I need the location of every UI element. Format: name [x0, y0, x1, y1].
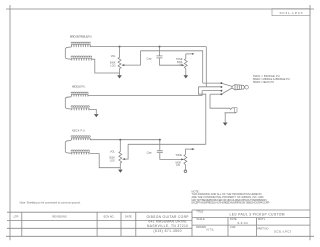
svg-text:TITLE: TITLE: [196, 210, 203, 214]
ground VOL1: [117, 75, 122, 78]
svg-text:SW#3 = NECK PU: SW#3 = NECK PU: [253, 80, 275, 84]
wire P2 series link (left): [65, 97, 71, 109]
svg-text:NECK P.U.: NECK P.U.: [72, 128, 86, 132]
ground P2: [94, 114, 99, 117]
node P1 volume tap: [119, 46, 121, 48]
svg-text:LIN: LIN: [176, 164, 180, 167]
output jack J1: [225, 108, 238, 123]
title block right section: [192, 210, 310, 237]
svg-text:641 MASSMAN DRIVE: 641 MASSMAN DRIVE: [149, 220, 188, 224]
svg-text:SCALE: SCALE: [196, 217, 205, 221]
wiper VOL1: [121, 51, 140, 66]
svg-text:REVISIONS: REVISIONS: [52, 214, 66, 218]
svg-text:LTR: LTR: [14, 214, 19, 218]
node C1 tap on hot bus: [159, 46, 161, 48]
label VOL1: [110, 55, 116, 67]
wire P3 hot bus to right: [90, 139, 161, 141]
wiper VOL3: [122, 144, 128, 160]
potentiometer TONE3 500K LIN: [184, 149, 187, 170]
pickup P1 coil 1: [71, 42, 90, 47]
svg-text:ECN NO.: ECN NO.: [104, 214, 115, 218]
svg-text:PART NO: PART NO: [257, 226, 268, 230]
svg-text:VOL: VOL: [110, 151, 115, 154]
ground J1: [223, 123, 228, 126]
wire P3 output (second wire) to bus riser: [128, 143, 206, 145]
wire P1 hot bus to right: [90, 46, 206, 48]
svg-text:LES PAUL 3 PICKUP CUSTOM: LES PAUL 3 PICKUP CUSTOM: [230, 213, 285, 217]
switch SW1 contact 2: [198, 86, 222, 88]
note switch positions: [253, 74, 290, 84]
svg-text:9-9-94: 9-9-94: [238, 221, 248, 225]
svg-text:MIDDLE P.U.: MIDDLE P.U.: [72, 85, 86, 89]
wire P1 output (second wire) to switch contact 1: [141, 51, 203, 83]
svg-text:(615) 871-4500: (615) 871-4500: [154, 229, 182, 233]
pickup P3 coil 2: [71, 150, 90, 154]
svg-text:N.T.S.: N.T.S.: [207, 228, 215, 232]
wire P1 hot bus drop to switch contact 2: [205, 47, 207, 87]
title block revision table: [7, 212, 192, 236]
ground VOL3: [118, 170, 123, 173]
label TONE1: [176, 58, 183, 66]
ground TONE1: [184, 75, 189, 78]
wire switch common to jack: [210, 94, 230, 108]
switch SW1 contact 3: [202, 90, 222, 92]
wire P3 bus riser to switch contact 2 jog: [198, 87, 205, 145]
svg-text:TONE: TONE: [175, 154, 182, 157]
potentiometer TONE1 500K LIN: [184, 54, 187, 75]
svg-text:BRIDGE(TREBLE) P.U.: BRIDGE(TREBLE) P.U.: [70, 35, 92, 39]
svg-text:NASHVILLE, TN 37210: NASHVILLE, TN 37210: [147, 224, 188, 228]
capacitor C1: [157, 47, 182, 66]
pickup P2 coil 2: [71, 106, 89, 110]
note confidential: [192, 189, 270, 204]
svg-text:SC3L-LPC3: SC3L-LPC3: [274, 230, 291, 234]
wiper TONE1 arrow: [182, 64, 185, 66]
pickup P1 coil 2: [71, 56, 92, 61]
capacitor C3: [157, 140, 182, 160]
svg-text:VOL: VOL: [111, 55, 116, 58]
wire TONE3 top terminal: [185, 148, 194, 150]
svg-text:SC3L-LPC3: SC3L-LPC3: [280, 11, 303, 15]
wire TONE1 top terminal: [186, 53, 195, 55]
svg-text:EXCEPT AS EXPRESSLY AUTHORIZED: EXCEPT AS EXPRESSLY AUTHORIZED IN WRITIN…: [192, 201, 270, 205]
wiper TONE3 arrow: [181, 158, 184, 160]
potentiometer VOL1 500K LOG: [118, 47, 121, 76]
potentiometer VOL3 500K LOG: [119, 140, 122, 170]
svg-text:Cap: Cap: [147, 151, 152, 155]
switch SW1 lever: [222, 84, 248, 94]
wire P3 cold to volume bottom: [90, 154, 120, 168]
drawing number box (top right): [272, 9, 310, 16]
svg-text:Cap: Cap: [146, 56, 151, 60]
wire P1 cold to volume bottom: [92, 59, 120, 73]
pickup P2 coil 1: [71, 92, 88, 96]
svg-text:CHK: CHK: [230, 225, 236, 229]
svg-text:Note: Shielding to be connect: Note: Shielding to be connected to commo…: [20, 201, 81, 205]
svg-text:LOG: LOG: [110, 64, 115, 67]
node C3 tap on hot bus: [159, 139, 161, 141]
wire P3 series link (left): [65, 141, 71, 154]
switch SW1 contact 1: [203, 82, 223, 84]
switch SW1 common contact: [210, 93, 222, 95]
label VOL3: [109, 151, 115, 163]
svg-text:DATE: DATE: [125, 214, 132, 218]
svg-text:MAT'L: MAT'L: [258, 217, 266, 221]
pickup P3 coil 1: [71, 136, 90, 140]
node P3 volume tap: [119, 139, 121, 141]
wire P2 hot bus to switch contact 3: [88, 91, 202, 96]
svg-text:GIBSON GUITAR CORP: GIBSON GUITAR CORP: [147, 215, 190, 219]
label TONE3: [175, 154, 182, 167]
svg-text:DATE: DATE: [230, 217, 237, 221]
wire P1 series link (left): [65, 47, 71, 59]
title block company cell: [147, 215, 190, 233]
ground lug TONE3: [184, 170, 187, 173]
svg-text:LOG: LOG: [110, 159, 115, 162]
svg-text:DRAWN: DRAWN: [196, 225, 206, 229]
wire P2 cold to ground: [89, 109, 96, 114]
